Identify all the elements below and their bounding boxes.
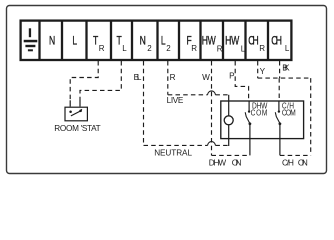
svg-text:L: L [285,44,290,53]
svg-text:CH: CH [271,35,282,48]
svg-text:L: L [122,44,127,53]
svg-text:ON: ON [298,159,308,168]
svg-text:W: W [202,73,210,82]
svg-text:COM: COM [251,108,268,118]
svg-text:P: P [229,72,235,81]
svg-text:HW: HW [225,35,239,48]
svg-text:N: N [140,35,146,48]
svg-text:2: 2 [147,44,152,53]
svg-text:L: L [241,45,246,54]
svg-text:R: R [217,45,223,54]
svg-text:CH: CH [248,35,258,48]
svg-text:ON: ON [232,158,242,167]
svg-text:2: 2 [166,44,171,53]
svg-text:LIVE: LIVE [167,96,184,105]
svg-text:COM: COM [282,108,296,118]
svg-text:BK: BK [282,64,290,73]
svg-text:R: R [99,44,105,53]
svg-text:DHW: DHW [209,158,227,167]
svg-text:C/H: C/H [282,159,294,168]
svg-text:R: R [259,44,265,53]
svg-text:Y: Y [260,67,266,76]
svg-text:L: L [72,35,77,48]
svg-text:R: R [170,73,176,82]
svg-text:R: R [191,44,197,53]
svg-text:NEUTRAL: NEUTRAL [154,149,192,158]
svg-text:BL: BL [134,73,142,82]
svg-text:ROOM 'STAT: ROOM 'STAT [54,124,100,133]
svg-text:N: N [49,35,55,48]
svg-text:HW: HW [202,35,216,48]
svg-text:L: L [161,35,166,48]
